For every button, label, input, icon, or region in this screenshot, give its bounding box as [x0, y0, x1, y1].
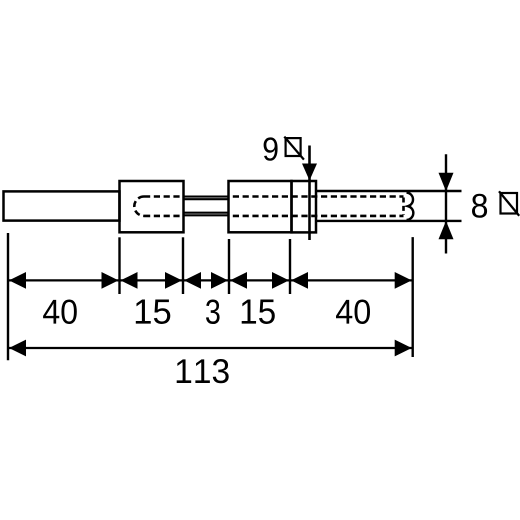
box glyph after 8 [501, 193, 518, 214]
right rod top edge / extension line for 8 [316, 190, 462, 192]
arrow 8 lower pointing up [439, 221, 454, 239]
row2 right arrow [395, 340, 412, 357]
row1 seg B right arrow [165, 272, 182, 289]
row1 seg C right arrow [211, 272, 228, 289]
hidden bore right end dashed [402, 198, 405, 215]
hidden bore left rounded cap dashed [134, 197, 144, 216]
row1 seg A right arrow [102, 272, 119, 289]
row1 seg C left arrow [184, 272, 201, 289]
box glyph after 9 [286, 138, 301, 156]
rod tip arcs [407, 193, 414, 221]
dimension line row 2 (113) [8, 347, 413, 349]
middle shaft top inner line [184, 198, 229, 200]
row1 seg E left arrow [291, 272, 308, 289]
hidden bore top dashed line in block 1 [144, 195, 183, 198]
extension line right x413 [412, 237, 414, 357]
row1 seg B left arrow [121, 272, 138, 289]
hidden bore bottom dashed line in block 1 [144, 215, 183, 218]
dimension line 8 vertical [445, 154, 447, 253]
label 40 (40a) [43, 300, 77, 325]
label 15 (15a) [136, 300, 171, 325]
box glyph diagonal after 8 [499, 191, 519, 216]
block 2 outline [229, 181, 292, 232]
row1 seg D right arrow [272, 272, 289, 289]
hidden bore top dashed line right part [233, 195, 404, 198]
arrow 8 upper pointing down [439, 173, 454, 191]
extension line left x8 [7, 233, 9, 360]
middle shaft bottom outer line [184, 214, 229, 216]
row1 seg A left arrow [9, 272, 26, 289]
block 1 outline [120, 181, 184, 232]
extension line x290 [289, 239, 291, 294]
middle shaft bottom inner line [184, 212, 229, 214]
extension line x120 [118, 237, 120, 294]
extension line x229 [228, 239, 230, 294]
label 8 (8) [472, 194, 487, 218]
label 40 (40b) [336, 300, 370, 325]
left rod outline [4, 191, 120, 220]
row2 left arrow [9, 340, 26, 357]
row1 seg E right arrow [395, 272, 412, 289]
dimension line row 1 [8, 279, 413, 281]
label 3 (3) [206, 300, 220, 325]
row1 seg D left arrow [230, 272, 247, 289]
right rod bottom edge / extension line for 8 [316, 220, 462, 222]
extension line x183 [182, 237, 184, 294]
label 15 (15b) [242, 300, 275, 325]
hidden bore bottom dashed line right part [233, 215, 404, 218]
arrow for 9 dia pointing down [302, 164, 317, 181]
box glyph diagonal after 9 [284, 137, 304, 160]
collar outline [292, 181, 317, 232]
leader line for 9 dia [308, 146, 311, 241]
middle shaft top outer line [184, 196, 229, 198]
label 9 (9) [264, 137, 278, 160]
label 113 (113) [177, 359, 229, 383]
